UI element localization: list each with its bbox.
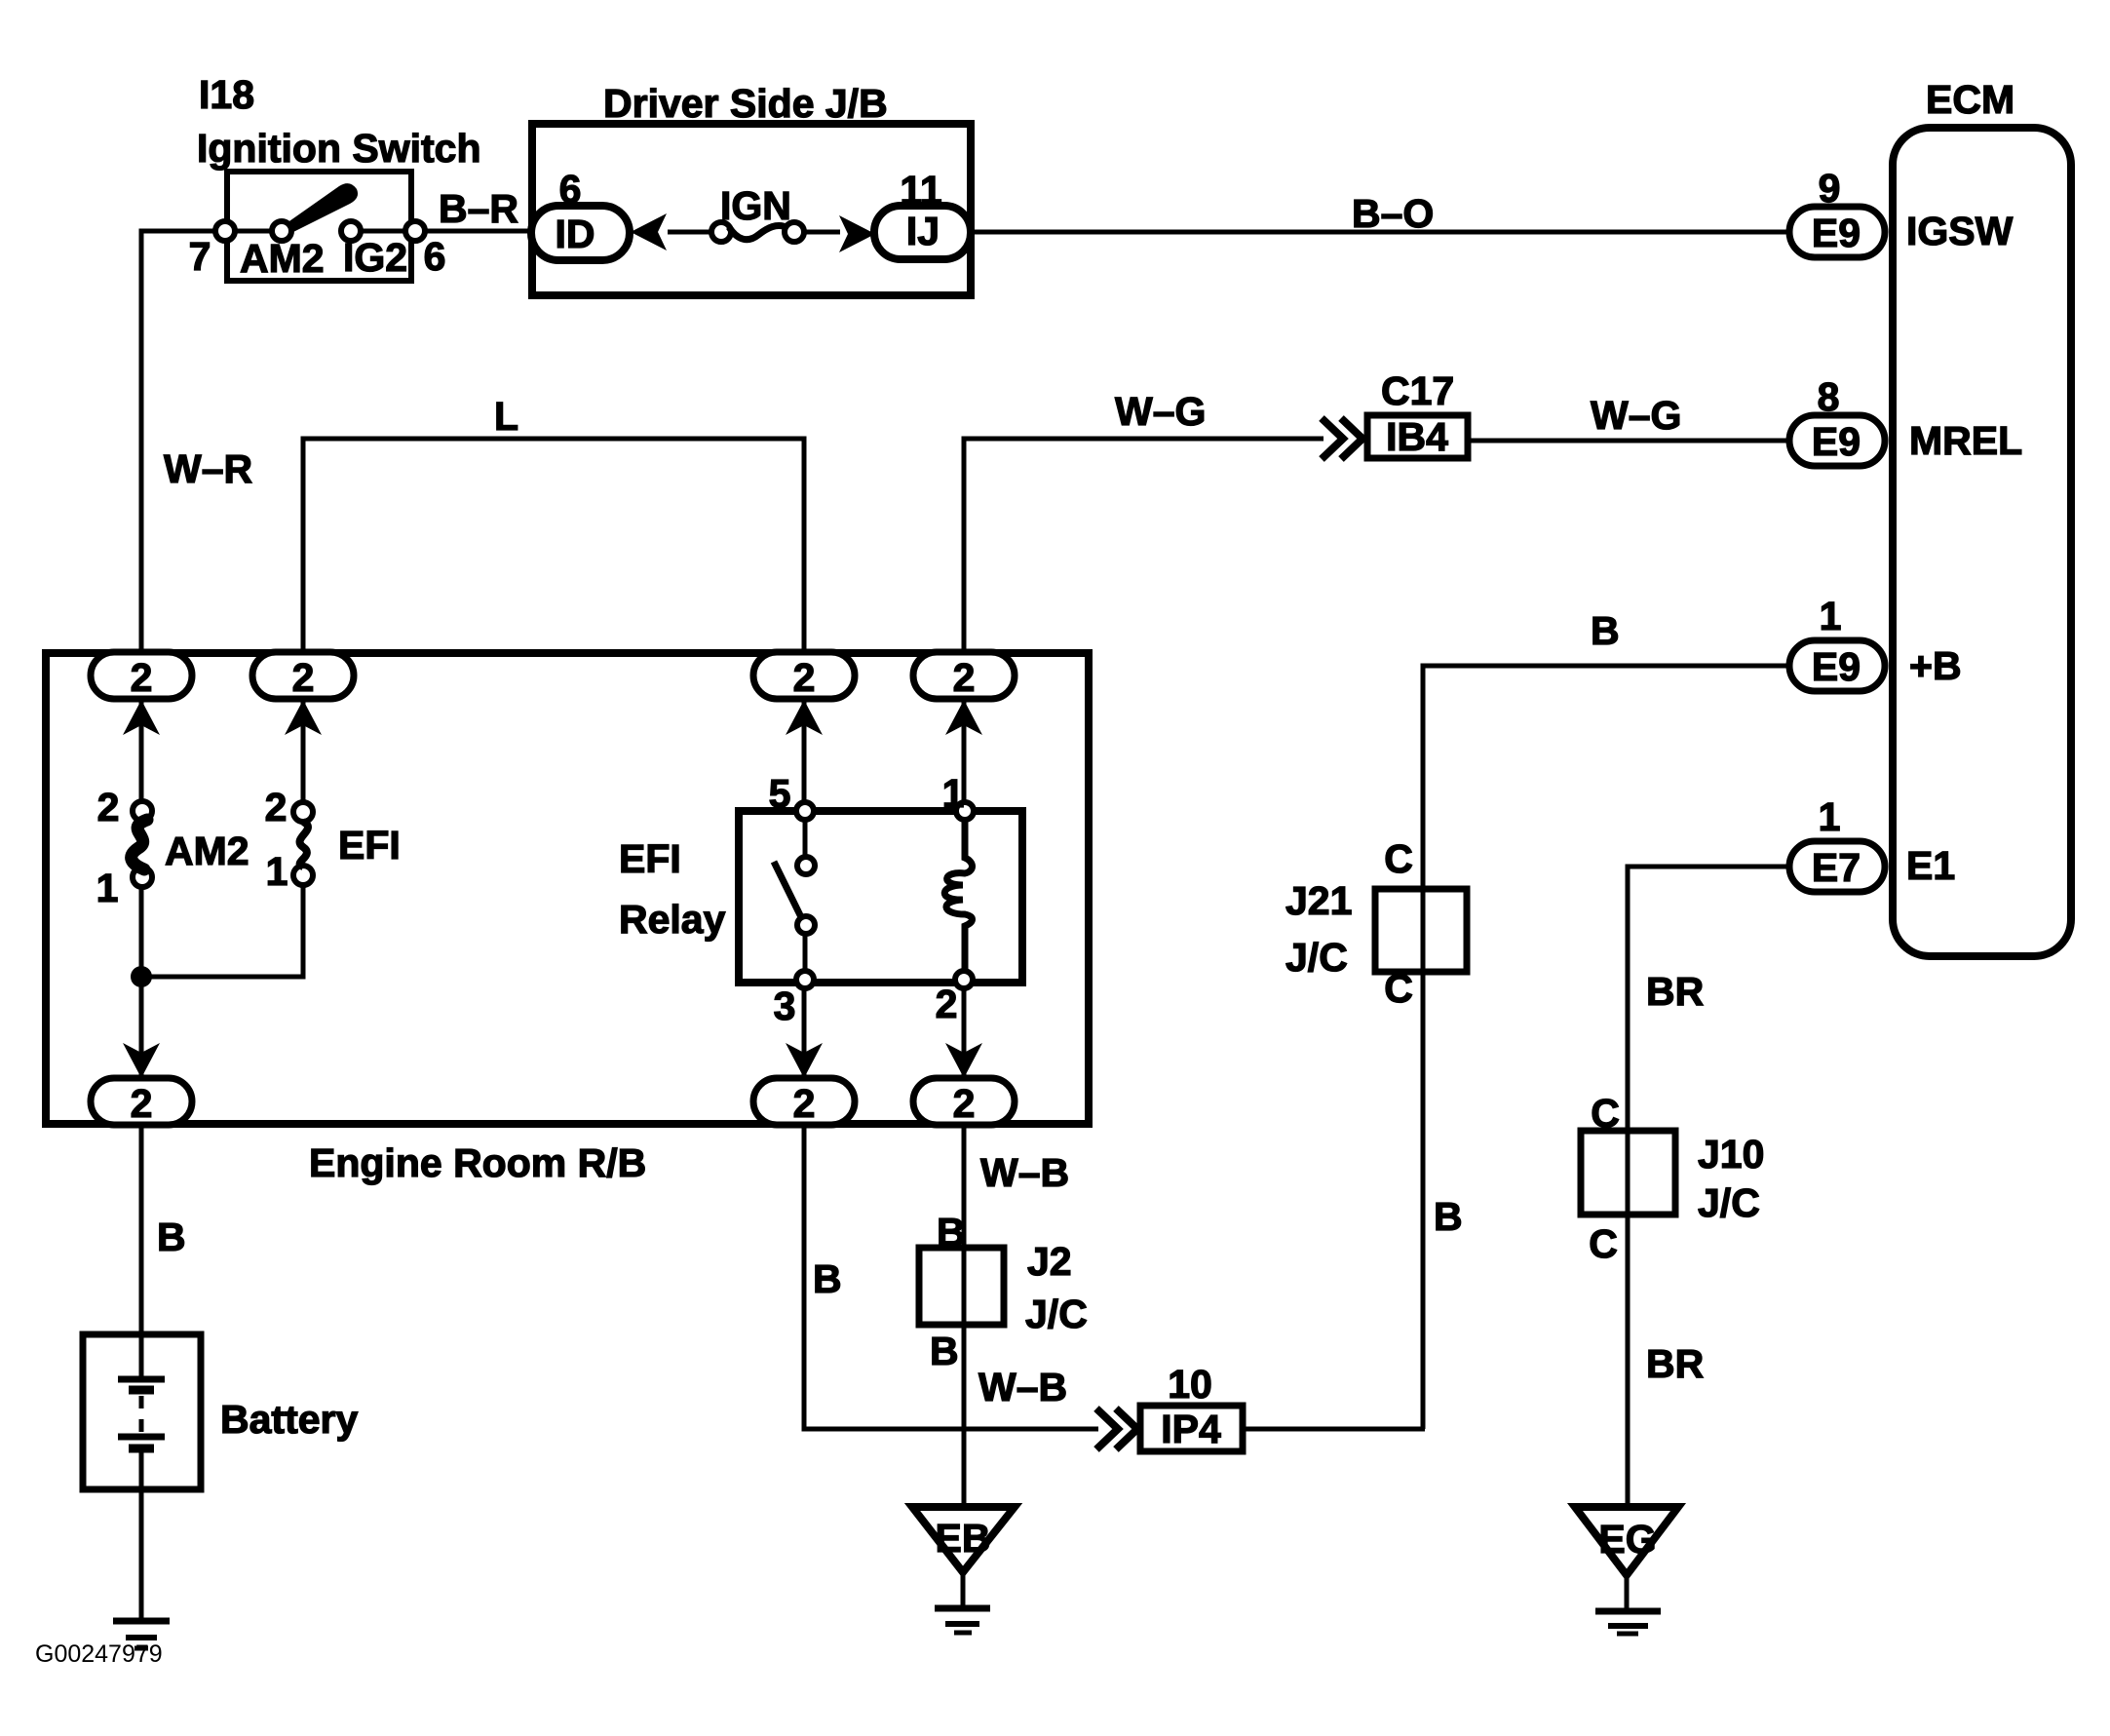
connector oval 2 top col1 xyxy=(91,652,192,700)
arrow up col3 xyxy=(786,700,823,735)
svg-text:6: 6 xyxy=(424,234,446,279)
wire B-R ignition pin6 to J/B xyxy=(415,229,532,234)
svg-text:C: C xyxy=(1384,836,1413,881)
arrow up col1 xyxy=(123,700,160,735)
svg-text:2: 2 xyxy=(793,655,816,700)
connector oval 2 top col4 xyxy=(913,652,1015,700)
svg-text:3: 3 xyxy=(774,984,796,1028)
wire W-G C17 to ECM MREL xyxy=(1468,439,1793,444)
wire branch junction to fuse EFI xyxy=(141,885,303,977)
wire relay pin3 to bottom oval xyxy=(802,983,807,1084)
svg-text:Driver Side J/B: Driver Side J/B xyxy=(603,81,888,126)
svg-text:B: B xyxy=(1591,608,1620,653)
svg-text:6: 6 xyxy=(559,167,582,212)
svg-text:EG: EG xyxy=(1598,1517,1656,1562)
svg-text:J10: J10 xyxy=(1698,1132,1764,1177)
svg-text:2: 2 xyxy=(292,655,315,700)
Driver Side J/B box xyxy=(532,81,971,295)
svg-text:L: L xyxy=(494,394,518,439)
wire junction to bottom oval xyxy=(139,977,144,1084)
fuse AM2 xyxy=(96,785,249,910)
wire oval3 to relay pin5 xyxy=(802,692,807,811)
svg-text:W–G: W–G xyxy=(1115,389,1206,434)
ground EG triangle xyxy=(1575,1507,1678,1634)
battery xyxy=(118,1334,358,1493)
switch IGN contacts xyxy=(711,183,804,242)
svg-text:B: B xyxy=(930,1329,959,1373)
svg-text:IGSW: IGSW xyxy=(1906,209,2014,253)
battery box xyxy=(83,1334,201,1489)
fuse EFI xyxy=(265,785,401,894)
wire B-O J/B to ECM IGSW xyxy=(975,230,1793,235)
arrow up col4 xyxy=(945,700,982,735)
svg-text:E7: E7 xyxy=(1812,845,1861,890)
connector C17 chevrons xyxy=(1322,418,1362,459)
wire L from oval2 to oval3 xyxy=(303,439,804,659)
connector oval 2 top col3 xyxy=(753,652,855,700)
relay EFI internals xyxy=(619,771,974,1028)
svg-text:C: C xyxy=(1591,1091,1620,1136)
Engine Room R/B box xyxy=(46,653,1089,1185)
ignition switch contacts xyxy=(189,183,446,281)
wire oval4 to relay pin1 xyxy=(962,692,967,811)
wire col1 oval to fuse AM2 xyxy=(139,692,144,801)
wire W-R ignition pin7 to Engine Room R/B xyxy=(141,231,225,659)
wire col2 oval to fuse EFI xyxy=(301,692,306,802)
EFI relay box xyxy=(739,811,1022,983)
svg-text:Ignition Switch: Ignition Switch xyxy=(197,126,481,171)
wire B vertical through J21 xyxy=(1421,666,1426,1429)
svg-text:7: 7 xyxy=(189,234,211,279)
svg-text:E1: E1 xyxy=(1906,843,1955,888)
svg-text:2: 2 xyxy=(953,655,976,700)
ground EB triangle xyxy=(912,1507,1015,1633)
wire battery to ground xyxy=(139,1493,144,1621)
ignition switch I18 box xyxy=(197,72,481,281)
wire J/B internal IGN to IJ arrow xyxy=(794,230,840,235)
svg-text:G00247979: G00247979 xyxy=(35,1640,163,1668)
wire W-G oval4 to C17 xyxy=(964,439,1324,659)
svg-text:2: 2 xyxy=(97,785,120,829)
svg-text:B–R: B–R xyxy=(439,186,518,231)
svg-text:2: 2 xyxy=(131,1081,153,1126)
svg-text:ID: ID xyxy=(556,212,595,256)
svg-text:AM2: AM2 xyxy=(240,236,325,281)
ECM pin oval E9 pin8 xyxy=(1789,374,1885,466)
ECM pin oval E7 pin1 xyxy=(1789,794,1885,892)
connector IP4 box xyxy=(1140,1362,1243,1451)
connector IP4 chevrons xyxy=(1096,1408,1137,1449)
svg-text:IB4: IB4 xyxy=(1386,414,1448,459)
svg-text:BR: BR xyxy=(1646,1341,1704,1386)
connector C17 IB4 box xyxy=(1367,368,1468,459)
svg-text:1: 1 xyxy=(96,866,119,910)
svg-text:EFI: EFI xyxy=(619,836,681,881)
svg-text:+B: +B xyxy=(1909,643,1962,688)
junction connector J10 box xyxy=(1581,1131,1764,1225)
svg-text:9: 9 xyxy=(1819,166,1841,211)
wire BR ECM E1 to J10 to ground EG xyxy=(1628,867,1793,1509)
svg-text:C: C xyxy=(1384,966,1413,1011)
arrow down col3 xyxy=(786,1043,823,1078)
svg-text:E9: E9 xyxy=(1812,644,1861,689)
svg-text:I18: I18 xyxy=(199,72,254,117)
svg-text:W–R: W–R xyxy=(164,446,252,491)
svg-text:1: 1 xyxy=(1820,594,1842,638)
svg-text:C17: C17 xyxy=(1381,368,1454,413)
arrow up col2 xyxy=(285,700,322,735)
svg-text:2: 2 xyxy=(936,982,958,1026)
arrow right at IJ xyxy=(839,215,875,252)
connector oval 2 bottom col3 xyxy=(753,1078,855,1126)
svg-text:B: B xyxy=(157,1215,186,1259)
wire relay pin2 to bottom oval xyxy=(962,983,967,1084)
wire J/B internal ID arrow to IGN xyxy=(668,230,721,235)
svg-text:2: 2 xyxy=(793,1081,816,1126)
arrow down col4 xyxy=(945,1043,982,1078)
svg-text:IJ: IJ xyxy=(906,209,940,253)
ECM box xyxy=(1893,77,2071,956)
svg-text:EFI: EFI xyxy=(338,823,401,868)
svg-text:J/C: J/C xyxy=(1698,1180,1760,1225)
svg-text:Engine Room R/B: Engine Room R/B xyxy=(309,1140,646,1185)
wire W-B col4 through J2 to ground EB xyxy=(962,1119,967,1509)
ECM pin oval E9 pin9 xyxy=(1789,166,1885,257)
connector oval 2 top col2 xyxy=(252,652,354,700)
svg-text:W–G: W–G xyxy=(1591,393,1681,438)
wire B to ECM +B xyxy=(1423,666,1793,1429)
svg-text:Relay: Relay xyxy=(619,897,726,942)
wire battery feed xyxy=(139,1119,144,1376)
ground battery xyxy=(113,1621,170,1648)
wire B relay output down to IP4 xyxy=(804,1119,1098,1429)
svg-text:J/C: J/C xyxy=(1025,1292,1088,1336)
svg-text:B: B xyxy=(937,1210,966,1254)
svg-text:IG2: IG2 xyxy=(343,235,407,280)
ECM pin oval E9 pin1 xyxy=(1789,594,1885,691)
junction connector J21 box xyxy=(1285,878,1467,980)
connector oval 2 bottom col4 xyxy=(913,1078,1015,1126)
svg-text:5: 5 xyxy=(769,771,791,816)
wire ignition internal pin7 to AM2 xyxy=(225,229,282,234)
svg-text:ECM: ECM xyxy=(1926,77,2014,122)
svg-text:B–O: B–O xyxy=(1352,191,1434,236)
svg-text:1: 1 xyxy=(266,849,288,894)
svg-text:Battery: Battery xyxy=(220,1397,358,1442)
svg-text:2: 2 xyxy=(265,785,288,829)
svg-text:IP4: IP4 xyxy=(1161,1407,1221,1451)
svg-text:B: B xyxy=(1434,1194,1463,1239)
svg-text:IGN: IGN xyxy=(720,183,791,228)
wire IP4 to B vertical xyxy=(1246,1427,1425,1432)
svg-text:W–B: W–B xyxy=(980,1150,1069,1195)
svg-text:2: 2 xyxy=(131,655,153,700)
wire fuse AM2 to junction xyxy=(139,887,144,977)
junction connector J2 box xyxy=(919,1239,1088,1336)
svg-text:B: B xyxy=(813,1256,842,1301)
svg-text:1: 1 xyxy=(942,771,965,816)
connector oval ID xyxy=(531,167,630,260)
node junction dot xyxy=(131,966,152,987)
svg-text:8: 8 xyxy=(1818,374,1840,419)
svg-text:C: C xyxy=(1589,1221,1618,1266)
svg-text:2: 2 xyxy=(953,1081,976,1126)
svg-text:11: 11 xyxy=(900,168,941,212)
wire ignition internal IG2 to pin6 xyxy=(351,229,415,234)
svg-text:E9: E9 xyxy=(1812,419,1861,464)
arrow left at ID xyxy=(631,213,667,251)
connector oval 2 bottom col1 xyxy=(91,1078,192,1126)
svg-text:EB: EB xyxy=(936,1516,991,1561)
svg-text:W–B: W–B xyxy=(978,1365,1067,1409)
arrow down col1 xyxy=(123,1043,160,1078)
svg-text:J2: J2 xyxy=(1027,1239,1072,1284)
connector oval IJ xyxy=(874,168,971,259)
svg-text:10: 10 xyxy=(1168,1362,1212,1407)
svg-text:1: 1 xyxy=(1819,794,1841,839)
svg-text:J/C: J/C xyxy=(1285,935,1348,980)
svg-text:E9: E9 xyxy=(1812,211,1861,255)
svg-text:AM2: AM2 xyxy=(165,829,249,873)
svg-text:MREL: MREL xyxy=(1909,418,2022,463)
svg-text:J21: J21 xyxy=(1285,878,1352,923)
svg-text:BR: BR xyxy=(1646,969,1704,1014)
